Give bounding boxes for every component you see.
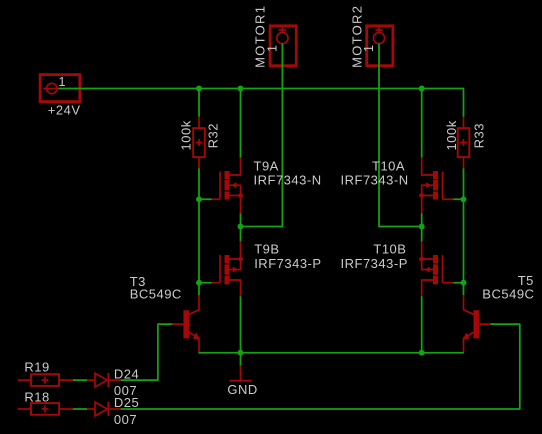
mosfet T9A (n-channel) [212, 157, 244, 213]
wire T9B gate stub net [199, 282, 212, 284]
wire D24 to T3 base [121, 324, 172, 380]
svg-text:T10B: T10B [373, 242, 406, 257]
wire output node to T10B source [421, 227, 423, 242]
wire T10B gate stub net [454, 282, 464, 284]
svg-text:100k: 100k [179, 120, 194, 150]
diode D24 [87, 373, 121, 387]
svg-text:IRF7343-P: IRF7343-P [341, 256, 408, 271]
ground symbol GND [230, 366, 252, 383]
wire T10A gate stub net [454, 198, 464, 200]
junction emitter rail / GND [238, 350, 244, 356]
connector MOTOR1 [270, 26, 296, 66]
transistor T3 (npn) [172, 295, 200, 352]
svg-text:MOTOR2: MOTOR2 [349, 5, 364, 68]
svg-text:T9B: T9B [254, 242, 279, 257]
wire gate node B down to T10B gate node [463, 199, 465, 282]
svg-text:T9A: T9A [254, 158, 279, 173]
junction T10B gate / T5 collector [461, 280, 467, 286]
svg-text:T10A: T10A [372, 158, 405, 173]
svg-text:R32: R32 [206, 123, 221, 148]
wire output node to T9B source [240, 227, 242, 242]
wire GND drop [240, 353, 242, 366]
junction gate node B [461, 196, 467, 202]
wire T10A source to output node [421, 213, 423, 226]
wire T10B drain to emitter rail [421, 296, 423, 353]
wire T9A source to output node [240, 213, 242, 226]
wire emitter rail T3 to T5 [199, 352, 463, 354]
resistor R18 [18, 403, 73, 415]
svg-text:100k: 100k [444, 120, 459, 150]
svg-text:1: 1 [265, 45, 279, 52]
junction +24V/R32 [196, 86, 202, 92]
svg-text:IRF7343-N: IRF7343-N [341, 173, 409, 188]
svg-text:D24: D24 [114, 366, 139, 381]
svg-text:IRF7343-N: IRF7343-N [254, 173, 322, 188]
wire gate node to T3 collector [198, 283, 200, 295]
wire R32 bottom to gate node A [198, 169, 200, 200]
svg-text:R19: R19 [24, 360, 49, 375]
mosfet T9B (p-channel) [212, 241, 244, 296]
connector MOTOR2 [367, 26, 393, 66]
connector +24V supply [40, 75, 80, 102]
junction half-bridge B output [419, 224, 425, 230]
wire T9A drain feed [240, 91, 242, 157]
junction +24V/T10A drain [419, 86, 425, 92]
svg-text:+24V: +24V [48, 102, 81, 117]
wire gate node A to T9A gate [199, 198, 212, 200]
svg-text:1: 1 [59, 75, 66, 89]
wire gate node A down to T9B gate node [198, 199, 200, 282]
wire T10A drain feed [421, 91, 423, 157]
resistor R33 [458, 117, 470, 169]
wire R19 to D24 anode [73, 379, 87, 381]
wire R18 to D25 anode [73, 408, 87, 410]
wire R32 top feed [198, 91, 200, 117]
svg-text:R18: R18 [24, 390, 49, 405]
wire R33 bottom to gate node B [463, 169, 465, 200]
svg-text:D25: D25 [114, 395, 139, 410]
transistor T5 (npn, mirrored) [463, 295, 491, 352]
svg-text:GND: GND [227, 382, 257, 397]
wire T9B drain to emitter rail [240, 296, 242, 353]
svg-text:BC549C: BC549C [482, 287, 534, 302]
wire D25 to T5 base [121, 324, 520, 409]
junction T9B gate / T3 collector [196, 280, 202, 286]
diode D25 [87, 402, 121, 416]
svg-text:IRF7343-P: IRF7343-P [254, 256, 321, 271]
mosfet T10A (n-channel, mirrored) [419, 157, 454, 213]
junction +24V/T9A drain [238, 86, 244, 92]
resistor R19 [18, 374, 73, 386]
resistor R32 [193, 117, 205, 169]
wire +24V rail [59, 89, 464, 117]
junction gate node A [196, 196, 202, 202]
svg-text:R33: R33 [472, 123, 487, 148]
svg-text:MOTOR1: MOTOR1 [253, 5, 268, 68]
wire MOTOR2 to half-bridge B output [379, 44, 419, 226]
junction emitter rail / T10B drain [419, 350, 425, 356]
wire MOTOR1 to half-bridge A output [243, 44, 282, 226]
svg-text:007: 007 [114, 412, 137, 427]
svg-text:1: 1 [362, 45, 376, 52]
mosfet T10B (p-channel, mirrored) [419, 241, 454, 296]
junction half-bridge A output [238, 224, 244, 230]
svg-text:BC549C: BC549C [130, 287, 182, 302]
wire gate node B to T5 collector [463, 283, 465, 295]
